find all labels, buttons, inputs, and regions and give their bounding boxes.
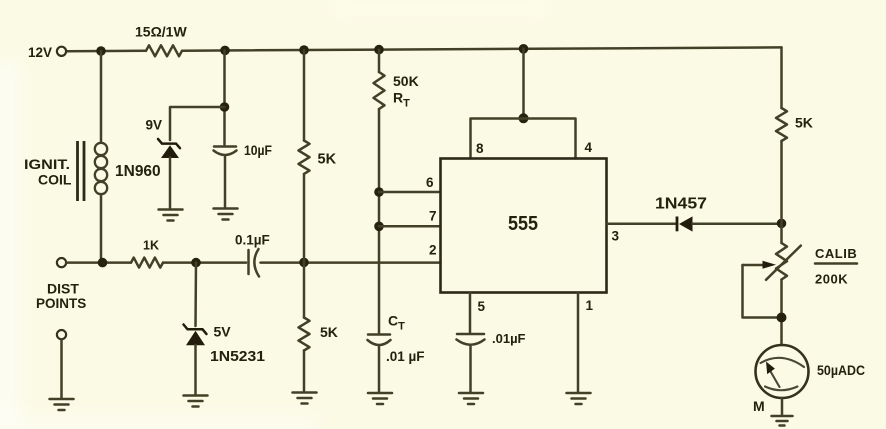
ground below divider xyxy=(293,393,317,404)
svg-text:IGNIT.: IGNIT. xyxy=(24,156,70,172)
divider line under CALIB xyxy=(815,262,857,265)
wire pin 7 stub xyxy=(379,225,441,228)
label .01 µF xyxy=(386,349,425,364)
wire pin 1 to ground xyxy=(577,293,580,393)
svg-text:POINTS: POINTS xyxy=(36,296,86,311)
svg-text:5K: 5K xyxy=(320,324,338,340)
resistor 5K lower xyxy=(299,318,310,351)
label M xyxy=(753,398,765,414)
capacitor 10uF xyxy=(214,147,237,156)
svg-text:5K: 5K xyxy=(795,115,813,131)
svg-text:.01 µF: .01 µF xyxy=(386,349,425,364)
wire 555 supply drop xyxy=(522,49,525,119)
label 5K upper xyxy=(318,152,337,168)
ground below points terminal xyxy=(50,399,74,410)
wire cap to ground xyxy=(469,347,472,393)
capacitor CT xyxy=(368,335,391,346)
svg-text:CALIB: CALIB xyxy=(815,246,857,261)
label 5K right xyxy=(795,115,813,131)
node junction diode row / meter rail xyxy=(777,219,787,229)
wire RT rail top xyxy=(378,50,381,72)
svg-text:5V: 5V xyxy=(214,324,232,340)
label 50K RT xyxy=(393,73,419,110)
wire diode to meter rail xyxy=(693,222,782,225)
wire divider rail middle xyxy=(303,174,306,318)
label 9V xyxy=(146,118,163,133)
wire pot to meter xyxy=(780,280,783,346)
svg-text:2: 2 xyxy=(429,243,437,258)
label 1K xyxy=(143,239,159,253)
svg-text:200K: 200K xyxy=(815,272,848,287)
zener diode 1N5231 xyxy=(184,325,207,346)
wire points row left xyxy=(67,261,132,264)
label pin 8 xyxy=(476,141,484,156)
svg-text:1N5231: 1N5231 xyxy=(210,349,265,365)
node junction top rail / 5K divider branch xyxy=(299,45,309,55)
node junction pins 8-4 bracket xyxy=(519,113,529,123)
svg-text:1K: 1K xyxy=(143,239,159,253)
label IGNIT. COIL xyxy=(24,156,72,188)
wire coil branch from rail xyxy=(100,51,103,141)
ground below 1N960 xyxy=(159,210,183,221)
svg-text:DIST: DIST xyxy=(47,281,79,297)
node junction divider / trigger row xyxy=(299,258,309,268)
wire CT to ground xyxy=(378,347,381,393)
label 555 xyxy=(508,213,538,235)
svg-text:3: 3 xyxy=(612,229,620,244)
label 50µADC xyxy=(817,362,865,378)
svg-text:555: 555 xyxy=(508,213,538,235)
label 200K xyxy=(815,272,848,287)
resistor 15Ω/1W xyxy=(146,45,182,56)
inductor ignition coil primary xyxy=(95,143,107,194)
svg-text:1N960: 1N960 xyxy=(115,163,161,180)
wire pin 6 stub xyxy=(379,191,441,194)
ground below meter xyxy=(772,416,793,426)
resistor 50K RT xyxy=(374,72,385,109)
node junction pin 7 xyxy=(374,222,384,232)
node junction top rail / 555 pins 8-4 branch xyxy=(519,44,529,54)
label 12V xyxy=(28,45,52,60)
diode 1N457 xyxy=(677,216,693,231)
label CT xyxy=(388,313,405,333)
ground below pin 1 xyxy=(567,393,591,404)
node junction wiper loop / rail xyxy=(777,313,787,323)
capacitor 0.1µF xyxy=(249,249,260,277)
label pin 2 xyxy=(429,243,437,258)
wire pins 8-4 bracket xyxy=(471,119,576,159)
label pin 7 xyxy=(429,209,437,224)
svg-text:5K: 5K xyxy=(318,152,337,168)
label 10µF xyxy=(244,143,272,158)
label 1N960 xyxy=(115,163,161,180)
node junction top rail / ignition coil branch xyxy=(96,46,106,56)
wire 1K to cap xyxy=(163,261,246,264)
wire to 5V zener xyxy=(194,263,197,326)
resistor 5K right xyxy=(776,108,787,141)
svg-text:50K: 50K xyxy=(393,73,419,89)
label .01µF xyxy=(492,331,526,346)
label pin 5 xyxy=(478,299,486,314)
svg-text:0.1µF: 0.1µF xyxy=(235,233,270,248)
node junction top rail / 10uF-zener branch xyxy=(220,46,230,56)
svg-text:10µF: 10µF xyxy=(244,143,272,158)
ground below CT xyxy=(368,393,392,404)
label DIST POINTS xyxy=(36,281,86,312)
capacitor .01µF pin5 xyxy=(457,334,485,345)
ground below pin 5 cap xyxy=(459,393,483,404)
wire meter to ground xyxy=(781,398,784,416)
label pin 4 xyxy=(585,140,593,155)
terminal points ground side xyxy=(57,330,66,339)
potentiometer CALIB 200K xyxy=(776,243,787,280)
wire trigger row to 555 pin 2 xyxy=(261,261,441,264)
wire pin 5 stub xyxy=(469,293,472,334)
label 1N5231 xyxy=(210,349,265,365)
node junction coil / points row xyxy=(98,258,108,268)
wire divider rail upper xyxy=(303,50,306,141)
svg-text:15Ω/1W: 15Ω/1W xyxy=(135,24,187,40)
meter M 50µADC xyxy=(756,345,809,398)
label pin 1 xyxy=(586,298,594,313)
label 1N457 xyxy=(655,196,707,213)
wire zener to ground xyxy=(194,345,197,395)
label 0.1µF xyxy=(235,233,270,248)
transformer core bars xyxy=(78,141,85,201)
label pin 3 xyxy=(612,229,620,244)
ground below 10uF xyxy=(214,209,238,220)
svg-text:1N457: 1N457 xyxy=(655,196,707,213)
wire pin 3 to diode xyxy=(607,222,678,225)
zener diode 1N960 xyxy=(158,139,180,158)
terminal 12V xyxy=(57,47,66,56)
label pin 6 xyxy=(426,175,434,190)
svg-text:50µADC: 50µADC xyxy=(817,362,865,378)
svg-text:9V: 9V xyxy=(146,118,163,133)
wire zener branch xyxy=(170,107,225,140)
op-amp U1 555 timer box xyxy=(441,159,607,293)
wire right rail middle xyxy=(780,141,783,243)
node junction 1K / 5V zener xyxy=(191,258,201,268)
wire 10uF to ground xyxy=(224,157,227,208)
label CALIB xyxy=(815,246,857,261)
node junction pin 6 xyxy=(374,187,384,197)
ground below 1N5231 xyxy=(184,396,208,407)
wire divider to ground xyxy=(303,351,306,393)
wire wiper loop xyxy=(743,265,782,318)
resistor 5K upper xyxy=(299,141,310,174)
svg-text:.01µF: .01µF xyxy=(492,331,526,346)
node junction zener branch xyxy=(220,102,230,112)
label 5V xyxy=(214,324,232,340)
svg-text:5: 5 xyxy=(478,299,486,314)
svg-text:12V: 12V xyxy=(28,45,52,60)
wire zener to ground xyxy=(169,158,172,209)
svg-text:COIL: COIL xyxy=(38,172,72,188)
wire coil bottom to points row xyxy=(100,195,103,263)
terminal DIST points xyxy=(57,258,66,267)
wire 10uF branch vertical xyxy=(223,50,226,144)
wire terminal to ground xyxy=(60,339,63,398)
svg-text:1: 1 xyxy=(586,298,594,313)
wire top supply rail xyxy=(67,47,782,51)
label 5K lower xyxy=(320,324,338,340)
svg-text:8: 8 xyxy=(476,141,484,156)
resistor 1K xyxy=(131,258,163,268)
label 15Ω/1W xyxy=(135,24,187,40)
svg-text:4: 4 xyxy=(585,140,593,155)
svg-text:M: M xyxy=(753,398,765,414)
node junction top rail / RT branch xyxy=(374,45,384,55)
svg-text:6: 6 xyxy=(426,175,434,190)
wire RT rail to CT xyxy=(378,109,381,334)
wiper arrow xyxy=(743,246,801,280)
wire right rail top xyxy=(780,47,783,108)
svg-text:7: 7 xyxy=(429,209,437,224)
